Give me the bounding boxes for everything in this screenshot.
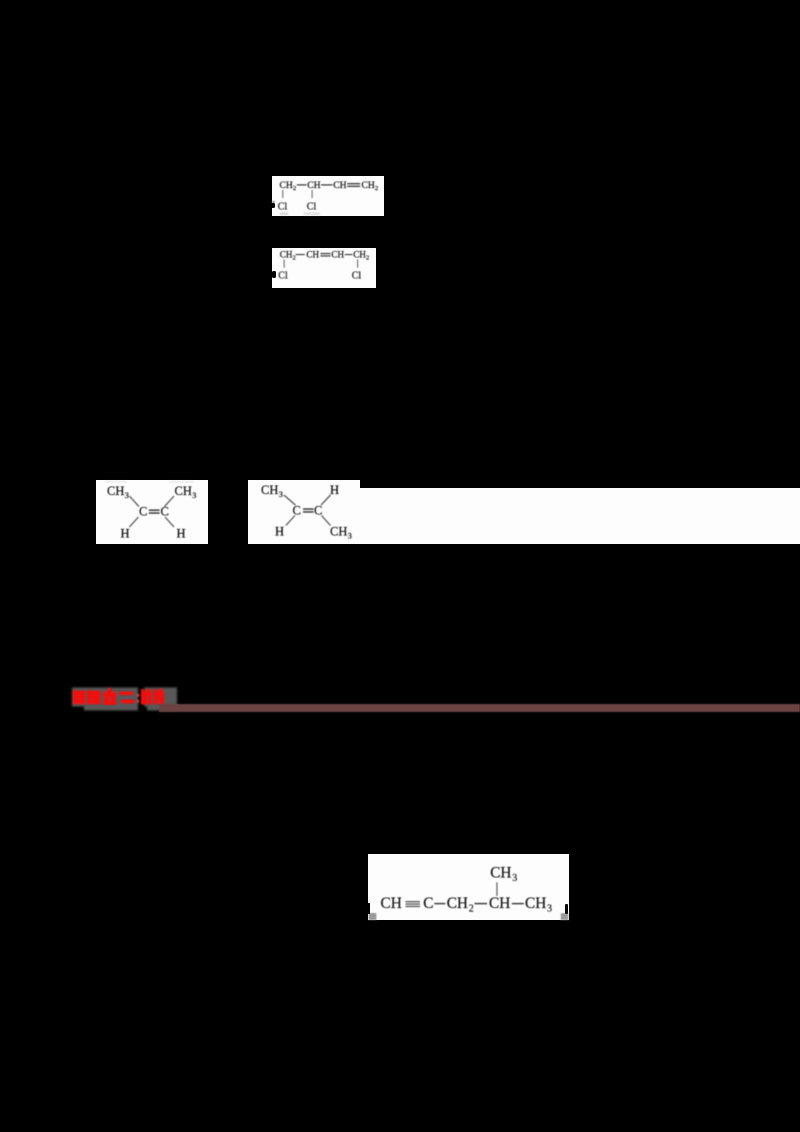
faint smudge top-right [169,480,194,482]
svg-text:CH: CH [307,179,320,190]
svg-text:C: C [293,504,301,518]
svg-text:Cl: Cl [352,270,362,281]
black text mark overlapping box E left edge [367,903,370,914]
svg-text:CH: CH [261,483,278,497]
selection handle bottom-left [368,913,376,920]
gray nick on left edge [272,200,275,202]
svg-text:CH: CH [280,249,293,259]
svg-text:H: H [330,483,339,497]
svg-text:CH: CH [280,179,293,190]
vertical bond to Cl 2 [357,259,358,268]
double bond C=C [303,508,314,510]
red character 2 [88,690,101,705]
red character 5 [141,689,152,705]
svg-text:3: 3 [547,904,552,915]
structure image: 1,4-dichloro-2-butene (box B) [272,248,376,289]
bond C to H (bottom-right) [165,517,174,527]
svg-text:CH: CH [362,179,375,190]
bond C-CH2 [434,903,445,904]
Cl labels [278,270,361,281]
svg-text:C: C [139,504,147,518]
svg-text:3: 3 [279,489,283,499]
triple bond [405,901,420,902]
black text mark at box E right edge [565,904,568,914]
structure image: cis-2-butene (box C) [96,480,208,544]
bond CH3 to C (top-right) [165,496,175,507]
single bond 1 [296,254,305,255]
svg-text:Cl: Cl [278,270,288,281]
red colon [137,694,140,703]
bond CH3 to C (top-left) [284,495,296,505]
maroon horizontal rule [159,704,800,712]
red character 1 [73,690,86,705]
black text mark overlapping box A left edge [271,203,275,209]
vertical bond CH3 to CH [496,882,497,896]
svg-text:3: 3 [512,873,517,884]
structure image: 4-methyl-1-pentyne (box E) [368,854,569,920]
svg-text:Cl: Cl [307,201,317,212]
svg-text:3: 3 [348,531,352,541]
structure image: 3,4-dichloro-1-butene (box A) [272,176,384,216]
single bond 2 [321,184,333,185]
faint smudge top-left [105,480,127,482]
double bond C=C [149,509,160,511]
svg-text:2: 2 [375,185,378,192]
svg-text:2: 2 [468,904,473,915]
svg-text:CH: CH [380,895,401,912]
svg-text:CH: CH [306,249,319,259]
svg-text:2: 2 [366,254,369,261]
svg-text:CH: CH [489,895,510,912]
svg-text:CH: CH [490,865,511,882]
svg-text:C: C [314,504,322,518]
double bond [321,252,331,253]
red character 3 [103,688,117,705]
double bond [347,183,360,184]
svg-text:CH: CH [353,249,366,259]
bond H to C (top-right) [321,495,331,505]
white strip continuing right of box D [360,488,800,544]
selection handle bottom-right [560,913,568,920]
svg-text:CH: CH [175,484,192,498]
svg-text:CH: CH [330,525,347,539]
bond C to H (bottom-left) [286,516,295,526]
vertical bond to Cl 1 [284,259,285,268]
svg-text:C: C [423,895,433,912]
vertical bond to Cl 2 [312,189,313,197]
bond CH3 to C (top-left) [129,496,139,507]
svg-text:H: H [275,525,284,539]
gray shadow patches [72,688,177,711]
svg-text:CH: CH [446,895,467,912]
svg-text:H: H [177,526,186,540]
red character 4 (two bars) [120,692,135,704]
bond CH-CH3 [511,903,523,904]
svg-text:CH: CH [107,484,124,498]
vertical bond to Cl 1 [282,189,283,197]
single bond 1 [297,184,307,185]
black text mark overlapping box B left edge [272,271,276,278]
bond C to H (bottom-left) [129,517,138,527]
bond CH2-CH [474,903,487,904]
svg-text:CH: CH [333,179,346,190]
svg-text:Cl: Cl [278,201,288,212]
svg-text:2: 2 [293,254,296,261]
svg-text:CH: CH [331,249,344,259]
red heading (blurry CJK text with gray shadow) [70,684,190,714]
svg-text:3: 3 [125,490,129,500]
formula line CH2-CH-CH=CH2 [280,179,379,191]
svg-text:CH: CH [525,895,546,912]
red character 6 [154,689,165,705]
svg-text:2: 2 [293,185,296,192]
svg-text:H: H [121,526,130,540]
structure image: trans-2-butene (box D) [248,480,360,544]
single bond 2 [345,254,353,255]
formula line CH2-CH=CH-CH2 [280,249,369,261]
faint gray smudges [280,212,288,215]
svg-text:3: 3 [192,490,196,500]
Cl labels [278,201,317,212]
bond C to CH3 (bottom-right) [322,516,331,526]
